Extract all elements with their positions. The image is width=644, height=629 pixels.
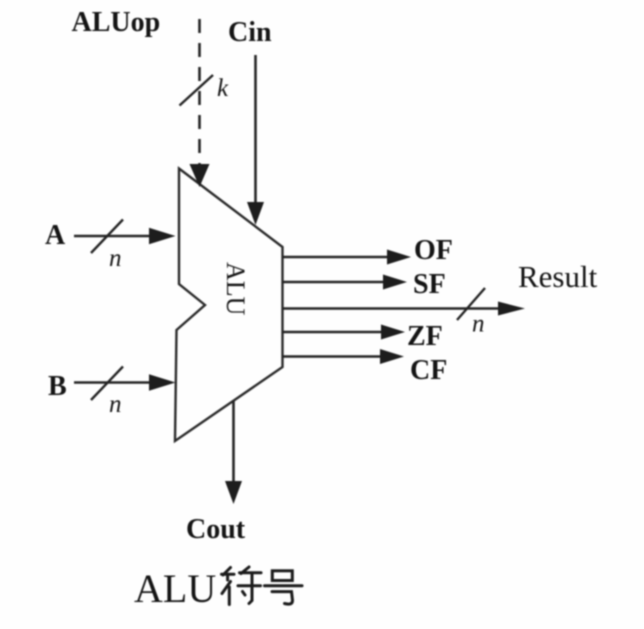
svg-text:OF: OF xyxy=(414,235,453,266)
wire Cin vertical line xyxy=(254,55,257,204)
wire SF output line xyxy=(282,281,385,284)
arrowhead Result (right) xyxy=(498,302,525,316)
arrowhead ZF (right) xyxy=(381,325,405,340)
wire CF output line xyxy=(282,355,382,358)
svg-text:ZF: ZF xyxy=(407,321,443,352)
caption glyph 符 xyxy=(222,567,262,605)
arrowhead SF (right) xyxy=(383,275,407,290)
svg-text:B: B xyxy=(48,371,67,402)
bus slash n on A line xyxy=(91,220,123,254)
caption glyph 号 xyxy=(265,571,303,604)
svg-text:ALUop: ALUop xyxy=(72,7,161,38)
svg-text:k: k xyxy=(217,75,229,102)
wire Result output line xyxy=(282,307,500,310)
wire ZF output line xyxy=(282,331,383,334)
arrowhead A (right) xyxy=(149,228,176,244)
wire A input line xyxy=(74,235,152,238)
svg-text:CF: CF xyxy=(410,355,447,386)
arrowhead Cout (down) xyxy=(225,481,242,504)
svg-text:n: n xyxy=(109,245,122,272)
wire Cout output line xyxy=(232,401,235,483)
svg-text:SF: SF xyxy=(413,269,446,300)
arrowhead CF (right) xyxy=(380,349,404,364)
arrowhead ALUop (down) xyxy=(190,164,210,187)
bus slash n on Result line xyxy=(457,288,485,320)
wire ALUop dashed control line xyxy=(198,19,201,166)
arrowhead OF (right) xyxy=(387,250,411,265)
svg-text:Cout: Cout xyxy=(186,514,246,545)
wire OF output line xyxy=(282,256,389,259)
svg-text:n: n xyxy=(109,391,122,418)
svg-text:A: A xyxy=(45,220,66,251)
svg-text:n: n xyxy=(472,311,485,338)
svg-text:Result: Result xyxy=(518,259,598,294)
arrowhead Cin (down) xyxy=(247,202,264,225)
svg-text:ALU: ALU xyxy=(134,566,216,611)
svg-text:Cin: Cin xyxy=(228,17,272,48)
op-amp U1 : ALU body polygon xyxy=(175,169,283,442)
svg-text:ALU: ALU xyxy=(221,262,250,316)
arrowhead B (right) xyxy=(149,374,176,390)
bus slash n on B line xyxy=(91,367,123,401)
wire B input line xyxy=(74,381,152,384)
bus slash k on ALUop line xyxy=(180,75,214,106)
